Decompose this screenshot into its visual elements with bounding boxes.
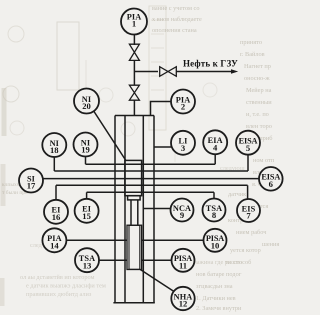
svg-text:1: 1 — [132, 19, 136, 29]
svg-text:е датчик выапжэ дласнфи тем: е датчик выапжэ дласнфи тем — [26, 283, 106, 290]
svg-text:ственныи: ственныи — [246, 99, 272, 106]
svg-text:8: 8 — [212, 210, 217, 220]
pump inner body — [129, 225, 140, 269]
svg-text:9: 9 — [180, 210, 184, 220]
svg-text:х внов наблюдаете: х внов наблюдаете — [152, 16, 202, 23]
svg-text:17: 17 — [27, 181, 36, 191]
arrow head oil to GZU — [231, 69, 238, 74]
instrument PISA 11 — [172, 249, 195, 272]
svg-text:вание с учетом со: вание с учетом со — [152, 5, 199, 12]
wire NHA12 diagonal — [140, 270, 174, 292]
instrument EISA 6 — [259, 167, 283, 191]
svg-text:згцвасдьн зна: згцвасдьн зна — [196, 283, 233, 290]
svg-text:ополнения стана: ополнения стана — [152, 27, 197, 34]
node tee to oil line — [134, 71, 158, 73]
faint bleed-through artifacts (decorative) — [2, 6, 217, 306]
wire valve V1 to valve V2 — [133, 60, 135, 85]
sonde neck — [128, 196, 141, 200]
instrument EIA 4 — [203, 130, 227, 154]
instrument PISA 10 — [204, 229, 227, 252]
instrument NHA 12 — [171, 287, 194, 310]
well outer casing — [115, 116, 154, 303]
svg-text:уется котор: уется котор — [230, 247, 261, 254]
instrument EI 16 — [44, 200, 68, 224]
well bottom cap — [113, 302, 154, 304]
wire line TSA13-PISA11 — [99, 259, 172, 261]
instrument TSA 13 — [75, 248, 99, 272]
wire NI20 diagonal to sonde — [94, 112, 126, 162]
instrument NI 18 — [42, 133, 66, 157]
instrument EI 15 — [75, 199, 99, 223]
svg-text:3: 3 — [181, 143, 185, 153]
wire PIA1 to valve V1 — [133, 35, 135, 46]
svg-text:11: 11 — [179, 260, 187, 270]
wire line EI16-EIS7 — [56, 184, 248, 186]
instrument TSA 8 — [203, 199, 226, 222]
svg-text:влен торо: влен торо — [246, 123, 272, 130]
instrument PIA 14 — [42, 228, 66, 252]
wire line NI19-EIA4 — [86, 163, 216, 165]
wire PIA2 to wellhead — [151, 102, 172, 116]
svg-text:16: 16 — [52, 212, 61, 222]
svg-text:правивших дюбитд ализ: правивших дюбитд ализ — [26, 291, 92, 298]
svg-text:принято: принято — [240, 39, 262, 46]
valve V1 — [129, 44, 139, 60]
svg-text:Нефть к ГЗУ: Нефть к ГЗУ — [183, 59, 238, 69]
svg-text:15: 15 — [82, 211, 91, 221]
valve V3 oil line — [160, 67, 177, 77]
instrument EISA 5 — [236, 131, 260, 155]
svg-text:г. Вайлов: г. Вайлов — [240, 51, 265, 58]
wire EI15 stub — [86, 192, 88, 199]
instrument NI 19 — [74, 133, 98, 157]
svg-text:2. Замечя внутри: 2. Замечя внутри — [196, 305, 242, 312]
pump outer body — [127, 225, 142, 269]
svg-text:2: 2 — [181, 102, 185, 112]
svg-text:14: 14 — [50, 240, 59, 250]
svg-text:4: 4 — [213, 142, 218, 152]
instrument LI 3 — [171, 131, 195, 155]
wire line SI17-EISA6 — [43, 178, 259, 180]
instrument circles — [19, 9, 283, 311]
instrument PIA 1 — [121, 9, 147, 35]
wire EI16 stub — [55, 185, 57, 200]
valve V2 — [129, 85, 139, 100]
svg-text:12: 12 — [179, 299, 188, 309]
downhole sonde box — [125, 160, 142, 195]
instrument EIS 7 — [237, 199, 260, 222]
wire LI3 to casing — [154, 146, 171, 148]
instrument NCA 9 — [171, 199, 194, 222]
wire oil line to arrow — [176, 71, 232, 73]
instrument labels — [27, 12, 281, 308]
wire valve V2 to wellhead — [133, 100, 135, 115]
svg-text:1. Датчики нев: 1. Датчики нев — [196, 295, 236, 302]
wire line NI18-EISA5 — [54, 170, 248, 172]
wire line EI15-TSA8 — [87, 191, 214, 193]
wire EIA4 stub — [214, 154, 216, 164]
svg-text:19: 19 — [81, 145, 90, 155]
wire line PIA14-PISA10 — [67, 239, 204, 241]
wire EISA5 stub — [247, 155, 249, 171]
tubing string — [131, 200, 138, 225]
svg-text:6: 6 — [269, 179, 274, 189]
wire line NCA9 — [143, 208, 170, 210]
instrument NI 20 — [74, 89, 99, 114]
instrument SI 17 — [19, 169, 43, 193]
well inner casing right — [142, 116, 144, 303]
svg-text:18: 18 — [50, 145, 59, 155]
svg-text:7: 7 — [246, 211, 251, 221]
wire NI19 stub — [85, 157, 87, 165]
well inner casing left — [124, 116, 126, 303]
wire NI18 stub — [53, 157, 55, 171]
svg-text:нием рабоч: нием рабоч — [236, 229, 267, 236]
svg-text:скважина где рассто: скважина где рассто — [188, 259, 242, 266]
svg-text:5: 5 — [246, 143, 250, 153]
svg-text:нов батаре подог: нов батаре подог — [196, 271, 242, 278]
svg-text:ном отп: ном отп — [253, 157, 275, 164]
svg-text:20: 20 — [82, 101, 91, 111]
svg-text:Мейер на: Мейер на — [246, 87, 272, 94]
svg-text:шения: шения — [262, 241, 279, 248]
wire EIS7 stub — [247, 185, 249, 199]
svg-text:датчик: датчик — [228, 191, 247, 198]
svg-text:10: 10 — [211, 240, 220, 250]
instrument PIA 2 — [171, 90, 195, 114]
svg-text:и, т.е. по: и, т.е. по — [246, 111, 269, 118]
svg-text:ол аы дставетйв ип котором: ол аы дставетйв ип котором — [20, 274, 95, 281]
wire TSA8 stub — [213, 192, 215, 198]
svg-text:оносно-ж: оносно-ж — [244, 75, 270, 82]
svg-text:13: 13 — [83, 260, 92, 270]
svg-text:Нагнет пр: Нагнет пр — [244, 63, 271, 70]
